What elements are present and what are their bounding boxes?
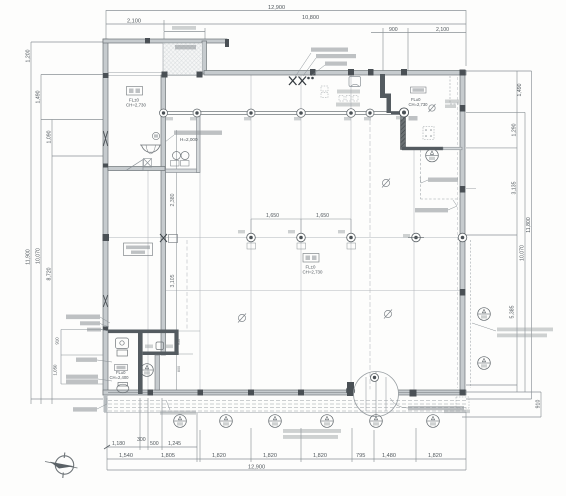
note text ライニング [80, 321, 109, 327]
beam column circle x=251 [247, 109, 255, 117]
vent double dots on top wall [307, 77, 310, 80]
bottom circled markers row [174, 415, 440, 428]
column squares on top-right wall [225, 39, 466, 76]
storage closet wall vertical x=401 [401, 113, 406, 150]
note text 下り壁(既設壁) [420, 177, 458, 183]
canopy dashed lines below bottom wall [108, 401, 466, 412]
bottom wall column circle x=350 [346, 386, 354, 394]
office south wall dark segment [391, 111, 404, 114]
note text 既存2階給排気等 [303, 54, 356, 76]
grid line y=237.5 horizontal [108, 237, 466, 239]
svg-text:2,380: 2,380 [170, 193, 176, 206]
svg-text:1,490: 1,490 [36, 90, 42, 103]
wall top-right [204, 71, 466, 76]
note text 既存窓を解体撤去のこと [472, 323, 553, 337]
beam column circle x=370 [366, 109, 374, 117]
svg-text:1,050: 1,050 [53, 364, 58, 376]
top small bracket over hatched opening [163, 32, 165, 40]
circled marker toilet wall [141, 364, 154, 377]
office dashed shelf [450, 76, 460, 104]
svg-text:300: 300 [137, 437, 146, 443]
mid grid column circle x=251 [247, 233, 256, 249]
anteroom small sink [156, 342, 164, 350]
dimension line 1,650 ticks [251, 218, 351, 220]
svg-text:910: 910 [55, 337, 60, 345]
grid line x=414 [413, 150, 415, 390]
svg-text:10,800: 10,800 [302, 15, 319, 21]
faint shelf line y=290 [166, 290, 460, 292]
note text 陳列棚(既設品) [415, 200, 457, 212]
svg-text:3,135: 3,135 [512, 181, 518, 194]
svg-text:1,090: 1,090 [47, 130, 53, 143]
note text 販売促進金物取付用下地 bottom right [390, 398, 464, 410]
分電盤 dashed boxes left of corner [321, 86, 328, 98]
phi symbol center right [382, 179, 390, 188]
svg-text:1,245: 1,245 [168, 441, 181, 447]
svg-text:1,805: 1,805 [161, 453, 175, 459]
dimension line 2,100 / 10,800 row [106, 23, 466, 25]
phi symbol sales floor [384, 310, 392, 319]
circled marker A right lower [478, 357, 491, 370]
bottom dimension row 1,540..1,820 [107, 458, 466, 460]
toilet wash basin [116, 338, 129, 349]
svg-text:910: 910 [536, 400, 542, 409]
interior long wall x=161-165.5 [161, 75, 166, 355]
note text ペーパーホルダー [66, 375, 112, 384]
tick marks on dimension lines [104, 445, 110, 449]
toilet right wall [138, 333, 143, 394]
note text 電気幹線 office [445, 100, 459, 109]
room label 事務室 [409, 87, 429, 107]
label 物入 [409, 116, 418, 121]
phi symbol storeroom [238, 314, 246, 323]
circled marker A closet [426, 149, 439, 162]
note text L型手すり [76, 358, 112, 363]
mid grid column circle x=301 [297, 233, 306, 249]
svg-text:795: 795 [356, 453, 365, 459]
equipment circles pair with tags [171, 152, 190, 167]
svg-text:8,720: 8,720 [47, 267, 53, 280]
storeroom sink semicircle [140, 145, 161, 154]
note text 防鳥網 [87, 328, 108, 332]
電床コーナー dashed boxes and labels [336, 90, 360, 107]
svg-text:1,180: 1,180 [112, 441, 125, 447]
right wall inner dashed hatch line [470, 240, 472, 388]
left wall tick boxes [103, 164, 108, 331]
left bottom extension [31, 398, 103, 400]
svg-text:2,100: 2,100 [436, 27, 449, 33]
left wall brace X marks [103, 131, 107, 307]
column squares on top-left wall [103, 38, 203, 78]
mid grid left wall box [103, 234, 110, 241]
interior vertical dim line x=176.5 [176, 130, 178, 390]
small left dim line x=61 toilet [61, 330, 103, 385]
wall bottom [103, 390, 466, 395]
room label 便所 [110, 365, 130, 380]
toilet WC [117, 383, 129, 393]
right dimension line 10,070 [524, 112, 526, 392]
wall top-left [103, 39, 227, 43]
anteroom bottom partition [143, 352, 179, 356]
svg-text:800: 800 [177, 366, 181, 372]
room label box 売場 [303, 254, 323, 275]
dimension line 12,900 top [106, 11, 466, 25]
svg-text:CH=2,730: CH=2,730 [303, 270, 323, 275]
svg-text:CH=2,730: CH=2,730 [409, 102, 429, 107]
grid line x=148 [147, 168, 149, 390]
interior grid lines [108, 73, 476, 391]
note text スチール製エアータオル [165, 131, 222, 143]
closet wall light continuation to right wall [443, 147, 462, 150]
right wall column boxes [460, 105, 466, 296]
corridor wall pair below anteroom [155, 355, 160, 390]
svg-text:5,385: 5,385 [510, 305, 516, 318]
svg-text:1,820: 1,820 [428, 453, 442, 459]
interior wall x=197 anteroom right [197, 113, 201, 173]
interior wall y=166.5 storeroom divider [108, 167, 165, 171]
svg-text:1,480: 1,480 [382, 453, 396, 459]
wall step vertical [202, 41, 207, 74]
beam column circle x=404 [399, 108, 408, 117]
svg-text:1,820: 1,820 [313, 453, 327, 459]
svg-text:900: 900 [389, 27, 398, 33]
mid grid column circle x=416 [408, 233, 424, 242]
grid line x=351 [350, 75, 352, 390]
room label box ウォークイン冷蔵庫 [124, 243, 153, 256]
bottom dimension row 1,180/300/500/1,245 [107, 446, 197, 448]
right dimension chain 1,490/1,290/3,135/5,385 [516, 71, 518, 392]
note text 設置面合せ金物 [160, 400, 196, 415]
svg-text:1,290: 1,290 [512, 123, 518, 136]
grid line x=200 [199, 113, 201, 390]
mid grid column circle x=351 [347, 233, 356, 249]
entrance opening gap in bottom wall [354, 389, 398, 395]
bottom wall column boxes [148, 382, 466, 397]
dimension row 900 / 2,100 top right [371, 32, 466, 34]
anteroom right wall [174, 333, 178, 355]
grid line x=370 [369, 113, 371, 390]
beam column circle x=163 [160, 109, 168, 117]
beam column circle x=301 [297, 109, 306, 118]
note blob inside hatch area [175, 45, 196, 49]
dashed box bottom-right corner [456, 397, 469, 408]
svg-text:1,650: 1,650 [266, 213, 279, 219]
svg-text:2,100: 2,100 [127, 19, 141, 25]
svg-text:1,490: 1,490 [517, 83, 523, 96]
svg-text:11,900: 11,900 [26, 249, 32, 265]
outer walls [103, 39, 466, 395]
svg-text:CH=2,730: CH=2,730 [126, 103, 146, 108]
beam column circle x=351 [347, 109, 356, 118]
entrance double door butterfly arcs [354, 372, 399, 417]
circled marker A right upper [478, 308, 491, 321]
toilet cabinet fixture [117, 350, 128, 356]
phi symbol office [429, 104, 436, 112]
svg-text:10,070: 10,070 [36, 248, 42, 264]
wall left [103, 39, 108, 395]
office partition wall jog [380, 74, 391, 113]
beam column circle x=197 [193, 109, 201, 117]
note text 販売促進解体撤去のこと bottom left [283, 429, 341, 439]
svg-text:12,900: 12,900 [268, 5, 285, 11]
left dimension line 11,900 chain [30, 42, 32, 404]
svg-text:11,800: 11,800 [526, 217, 532, 233]
equipment dots [425, 129, 432, 137]
toilet block top wall [108, 330, 179, 334]
svg-text:1,820: 1,820 [212, 453, 226, 459]
right dimension 910 [540, 392, 542, 417]
beam line y=113 [161, 112, 404, 115]
left dimension line 10,070 chain [40, 75, 42, 405]
right dimension line 11,800 [531, 71, 533, 399]
mid grid bowtie marker x=163 [160, 234, 178, 243]
anteroom partition extension right [179, 353, 193, 355]
note text 手洗いカウンター [73, 398, 107, 412]
brace bowtie marks below top wall [289, 77, 306, 86]
grid line x=251 [250, 75, 252, 390]
closet dashed lower wall line [421, 150, 461, 199]
small tick labels near beam columns [166, 116, 410, 237]
equipment dashed box in closet area [423, 127, 434, 140]
mop sink door swing [110, 160, 143, 171]
light dashed line x=187 [186, 240, 188, 330]
svg-text:1,820: 1,820 [263, 453, 277, 459]
svg-text:10,070: 10,070 [520, 245, 526, 261]
note text 既存ドア [311, 62, 347, 77]
mid grid wall box right x=462 [458, 233, 467, 242]
svg-text:H=2,000: H=2,000 [180, 137, 198, 142]
svg-text:500: 500 [150, 441, 159, 447]
grid line x=301 [300, 75, 302, 390]
washer box with X [144, 159, 152, 168]
anteroom labels [145, 345, 153, 349]
toilet top line extension right [179, 330, 200, 332]
canopy left edge [104, 395, 108, 412]
left dimension line 8,720 chain [51, 120, 53, 405]
inner dashed line along right wall [457, 77, 459, 388]
svg-text:3,105: 3,105 [170, 274, 176, 287]
hatched canopy opening top [163, 43, 203, 75]
grid line y=75 left section [108, 72, 202, 74]
canopy solid bottom edge [104, 412, 466, 414]
office sink fixture [349, 77, 361, 87]
note blob above top bracket [172, 26, 196, 30]
bottom total 12,900 [107, 469, 466, 471]
svg-text:1,200: 1,200 [26, 49, 32, 62]
note text GW(100)充填 [66, 315, 110, 324]
wall right [460, 71, 465, 396]
svg-text:1,650: 1,650 [316, 213, 329, 219]
interior wall y=169 anteroom divider [166, 169, 200, 173]
circled tag near steel door [152, 132, 159, 139]
svg-text:1,540: 1,540 [119, 453, 133, 459]
north compass [45, 453, 78, 479]
entrance center pivot circle [371, 374, 379, 382]
storage closet bottom wall [402, 147, 443, 150]
room label box 倉庫 [126, 87, 146, 108]
svg-text:12,900: 12,900 [248, 465, 265, 471]
svg-text:CH=2,400: CH=2,400 [110, 375, 130, 380]
note text 既存2階排水管 [295, 48, 348, 78]
bottom wall inner lines (shutter) [108, 392, 460, 394]
